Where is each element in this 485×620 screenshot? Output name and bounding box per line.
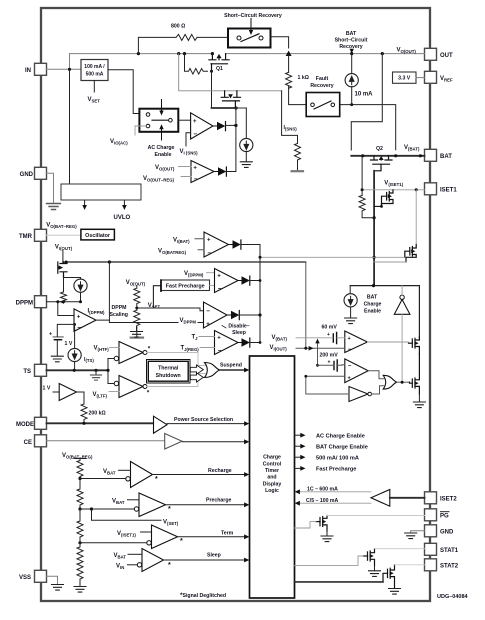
svg-text:VREF: VREF (440, 76, 453, 83)
resistor chain Rb (77, 479, 83, 510)
svg-text:BAT Charge Enable: BAT Charge Enable (316, 444, 368, 450)
ground M2 (374, 566, 376, 570)
wire A2 inputs (179, 167, 192, 177)
svg-text:+: + (327, 332, 330, 338)
svg-text:+: + (328, 360, 331, 366)
svg-text:−: − (348, 364, 352, 370)
pin ISET2 (425, 492, 437, 504)
svg-text:Disable–: Disable– (228, 324, 249, 330)
svg-text:VO(OUT): VO(OUT) (155, 165, 175, 172)
inverter gate drive (points up) (400, 295, 404, 299)
current source BAT charge enable (349, 286, 351, 294)
ground M3 (389, 589, 401, 595)
transistor M1 PG open drain (316, 516, 327, 532)
ground GND pin (47, 204, 61, 210)
node dot D2 join (234, 124, 237, 127)
transistor M5 (termination sense NMOS) (405, 245, 416, 263)
svg-text:+: + (207, 238, 211, 244)
pin IN (35, 63, 47, 75)
svg-text:VO(OUT): VO(OUT) (126, 280, 146, 287)
diode D5 (227, 314, 231, 316)
wire fault line y=104.6 (340, 105, 396, 150)
node dot rail Q1 source (211, 52, 214, 55)
transistor M3 STAT2 (383, 565, 395, 588)
svg-text:+: + (217, 336, 221, 342)
svg-text:V(ISET1): V(ISET1) (384, 181, 403, 188)
svg-text:Display: Display (263, 481, 282, 487)
svg-text:VO(OUT): VO(OUT) (397, 48, 417, 55)
wire VBAT sense to C13 (296, 337, 345, 339)
svg-text:Scaling: Scaling (110, 312, 128, 318)
svg-text:ISET2: ISET2 (440, 497, 457, 503)
svg-text:BAT: BAT (346, 31, 357, 37)
node dot rail Q2 drive (381, 52, 384, 55)
buffer T1 ISET2 (points left) (371, 490, 390, 507)
svg-text:*: * (180, 538, 183, 545)
arrow UVLO out 1 (84, 200, 86, 206)
svg-text:Oscillator: Oscillator (85, 233, 111, 239)
wire riser x=69.5 from IN wire up to main rail (69, 54, 71, 70)
buffer B4 CE (165, 434, 182, 450)
wire VI(OUT) rail y=262 (63, 261, 306, 263)
wire BAT rail y=155.8 (351, 155, 424, 157)
svg-text:60 mV: 60 mV (322, 325, 338, 331)
wire A1- from VI(SNS) (186, 133, 191, 146)
wire M1 gate from logic (295, 522, 317, 528)
transistor M2 STAT1 (363, 549, 375, 566)
svg-text:VIO(AC): VIO(AC) (110, 139, 128, 146)
svg-text:Short–Circuit Recovery: Short–Circuit Recovery (224, 13, 282, 19)
svg-text:I(TS): I(TS) (84, 357, 94, 363)
wire main rail y=53.6 from riser to OUT pin (70, 53, 425, 55)
svg-text:500 mA/ 100 mA: 500 mA/ 100 mA (316, 455, 359, 461)
wire M2 drain to STAT1 (375, 548, 425, 550)
IC outer border (41, 8, 430, 601)
diode D4 (238, 280, 242, 282)
wire fast precharge box to A4- (210, 285, 215, 287)
ground BAT charge enable (345, 318, 357, 324)
svg-text:−: − (77, 325, 81, 332)
svg-text:+: + (348, 376, 351, 382)
svg-text:+: + (193, 119, 197, 125)
wire C13 output to M6 gate (367, 341, 408, 343)
resistor Q1 gate pull-up (185, 54, 208, 75)
wire switch to A1+ (178, 119, 190, 121)
pin TMR (35, 229, 47, 241)
op-amp A4 fast precharge comparator (215, 269, 239, 293)
diode D2 (214, 171, 218, 173)
svg-text:V(LTF): V(LTF) (93, 392, 108, 399)
svg-text:+: + (193, 166, 197, 172)
switch box short-circuit recovery (228, 29, 271, 48)
node dot rail a (177, 52, 180, 55)
block arrow thermal shutdown to OR (190, 365, 203, 374)
wire divider to A10 bubble (80, 508, 134, 510)
node dot at IN riser (68, 68, 71, 71)
resistor 1 kOhm (286, 72, 292, 88)
wire D2 to error node (226, 108, 236, 172)
diode D3 (229, 244, 233, 246)
transistor M7 (410, 354, 420, 394)
ground GND right (405, 533, 417, 539)
svg-text:Term: Term (221, 531, 234, 537)
pin OUT (425, 48, 437, 60)
svg-text:AC Charge Enable: AC Charge Enable (316, 433, 365, 439)
pin STAT1 (425, 543, 437, 555)
wire M1 drain to PG pin (327, 515, 425, 517)
wire GND pin to ground (47, 173, 54, 203)
wire 500mA/100mA out (295, 456, 302, 458)
wire VIOUT to C14 plus (306, 375, 345, 377)
wire A7 inputs (199, 337, 215, 348)
battery 1V reference (53, 336, 63, 338)
transistor M4 (ISET1 mirror NMOS) (382, 190, 394, 207)
svg-text:IN: IN (25, 68, 31, 74)
OR gate M7 drive (383, 375, 397, 389)
ground 1V ref (56, 340, 58, 356)
svg-text:800 Ω: 800 Ω (171, 24, 185, 30)
svg-text:VO(BATREG): VO(BATREG) (158, 249, 187, 256)
svg-text:and: and (267, 475, 276, 481)
transistor P2 (gate drive mirror) (221, 91, 240, 108)
wire TS rail (47, 369, 109, 371)
wire VSET stub below box (93, 81, 95, 93)
wire sleep to logic box (164, 559, 246, 561)
node dot iset1 left (361, 188, 364, 191)
offset source 60mV (333, 333, 336, 344)
node dot BAT/fault (394, 154, 397, 157)
label Disable-Sleep (222, 326, 226, 329)
node dot bus/r (373, 216, 376, 219)
svg-text:PG: PG (440, 514, 449, 520)
bubble C8 output (143, 385, 147, 389)
comparator C8 low temp (119, 376, 143, 398)
pin GND (left) (35, 167, 47, 179)
pin CE (35, 435, 47, 447)
diode D1 (213, 125, 217, 127)
wire divider to A9 bubble (80, 478, 126, 480)
resistor chain Rd (77, 543, 83, 563)
svg-text:Enable: Enable (364, 309, 381, 315)
svg-text:VO(BAT–REG): VO(BAT–REG) (46, 223, 77, 230)
resistor 200k MODE (81, 404, 87, 423)
svg-text:500 mA: 500 mA (86, 72, 104, 78)
wire VIO(AC) to lower switch input (135, 126, 146, 135)
wire 200mV to C14 minus (318, 364, 345, 367)
wire VBAT down-link with up arrow (317, 342, 319, 366)
pin ISET1 (425, 183, 437, 195)
wire Q2 drive drop x=382.3 (351, 54, 382, 150)
transistor P3 (DPPM PMOS) (58, 262, 67, 278)
svg-text:BAT: BAT (440, 154, 452, 160)
svg-text:Thermal: Thermal (158, 366, 179, 372)
svg-text:Q2: Q2 (376, 146, 383, 152)
current source error pulldown (240, 138, 253, 151)
node dot rail/800ohm (137, 52, 140, 55)
svg-text:VI (SNS): VI (SNS) (180, 149, 199, 156)
pin VREF (425, 71, 437, 83)
wire CE to logic box (183, 441, 246, 443)
svg-text:Short–Circuit: Short–Circuit (335, 38, 368, 44)
wire rail tap to P2 row (179, 54, 225, 91)
ground bar divider (131, 337, 143, 339)
svg-text:DPPM: DPPM (16, 301, 33, 307)
wire D3 to OR node (241, 244, 260, 246)
pin PG (425, 509, 437, 521)
svg-text:Fault: Fault (316, 76, 329, 82)
wire fast precharge reference to VSET tap (153, 286, 161, 308)
wire M5 source to bus (374, 261, 406, 263)
svg-text:200 mV: 200 mV (320, 353, 339, 359)
wire 3.3V to VREF pin (416, 77, 425, 79)
svg-text:VI(OUT): VI(OUT) (270, 345, 288, 352)
offset source 200mV (334, 360, 337, 371)
op-amp A3 battery regulation (204, 232, 229, 257)
wire ISET2 drop to M5 (415, 190, 417, 245)
wire Q1 gate down to drive bus (211, 71, 213, 108)
svg-text:STAT1: STAT1 (440, 548, 459, 554)
svg-text:−: − (194, 176, 198, 183)
svg-text:UDG–04084: UDG–04084 (437, 594, 469, 600)
switch box AC charge enable selector (139, 109, 178, 132)
svg-text:−: − (207, 250, 211, 257)
wire Q2 gate bus x=374.1 down to BAT charge enable (373, 171, 375, 286)
comparator C14 (345, 359, 368, 383)
wire drive bus y=108 (212, 107, 238, 109)
OR gate suspend (205, 363, 220, 378)
resistor 800 ohm (176, 34, 197, 40)
wire VIOUT sense to C13 (296, 347, 345, 349)
wire T1 to ISET2 pin (390, 497, 425, 499)
wire AC charge enable out (295, 434, 302, 436)
svg-text:ISET1: ISET1 (440, 188, 457, 194)
wire PSS to logic box (167, 423, 245, 425)
pin BAT (425, 149, 437, 161)
pin VSS (35, 570, 47, 582)
svg-text:−: − (218, 348, 222, 355)
node dot bus/gate2 (373, 256, 376, 259)
box Thermal Shutdown (147, 360, 191, 384)
ground bar I(SNS) (292, 170, 303, 172)
box 100mA/500mA input current limit (81, 60, 108, 81)
svg-text:GND: GND (20, 172, 34, 178)
svg-text:TJ: TJ (192, 335, 199, 342)
svg-text:VBAT: VBAT (112, 499, 125, 506)
svg-text:*Signal Deglitched: *Signal Deglitched (180, 592, 226, 599)
svg-text:Charge: Charge (263, 455, 281, 461)
svg-text:+: + (206, 322, 210, 328)
wire 1V to A5 input (57, 324, 74, 336)
wire BAT charge enable out (295, 445, 302, 447)
svg-text:Charge: Charge (364, 302, 382, 308)
wire VDPPM from scaling node (96, 320, 204, 322)
resistor DPPM pin (61, 292, 67, 303)
wire BAT sense divider x=362.1 (361, 156, 363, 196)
diode D6 (238, 342, 242, 344)
node dot fault/10mA (350, 103, 353, 106)
wire UVLO sense riser x=69.5 down to UVLO block (69, 69, 71, 184)
current source 10 mA (345, 74, 358, 87)
resistor I(SNS) (295, 143, 301, 170)
svg-text:Shutdown: Shutdown (156, 373, 181, 379)
svg-text:I(DPPM): I(DPPM) (88, 309, 106, 316)
wire A4+ (207, 272, 215, 274)
svg-text:Q1: Q1 (216, 66, 223, 72)
wire 1C into box (299, 491, 371, 493)
svg-text:UVLO: UVLO (114, 215, 131, 221)
wire resistor to switch (197, 36, 228, 38)
svg-text:VBAT: VBAT (103, 469, 116, 476)
wire BAT charge enable frame (350, 286, 419, 337)
svg-text:100 mA /: 100 mA / (84, 64, 105, 70)
svg-text:1 V: 1 V (65, 341, 73, 347)
arrow into switch (250, 19, 252, 32)
svg-text:Enable: Enable (154, 152, 171, 158)
wire M3 drain to STAT2 (395, 564, 425, 566)
wire M2 gate (295, 556, 364, 565)
svg-text:Timer: Timer (265, 468, 279, 474)
svg-text:VO(OUT–REG): VO(OUT–REG) (143, 176, 175, 183)
wire C5 into box (299, 502, 371, 504)
svg-text:MODE: MODE (16, 422, 34, 428)
svg-text:V(DPPM): V(DPPM) (184, 271, 204, 278)
svg-text:TS: TS (23, 369, 31, 375)
svg-text:3.3 V: 3.3 V (398, 76, 411, 82)
wire switch return to rail (271, 37, 289, 48)
wire GND pin ground (411, 531, 425, 533)
svg-text:V(BAT): V(BAT) (272, 335, 288, 342)
comparator C7 hot temp (119, 342, 143, 364)
wire term to logic box (178, 536, 246, 538)
svg-text:−: − (193, 131, 197, 138)
svg-text:−: − (348, 347, 352, 353)
svg-text:+: + (348, 336, 351, 342)
svg-text:STAT2: STAT2 (440, 564, 459, 570)
ground divider (74, 587, 86, 593)
svg-text:BAT: BAT (367, 295, 378, 301)
svg-text:+: + (217, 274, 221, 280)
op-amp A2 output voltage loop (191, 161, 214, 183)
wire error node y=126 (226, 124, 236, 126)
resistor chain Rc (77, 509, 83, 543)
pin GND (right) (425, 525, 437, 537)
svg-text:VIN: VIN (116, 564, 124, 571)
svg-text:200 kΩ: 200 kΩ (89, 411, 106, 417)
wire VSS to ground (47, 576, 58, 584)
svg-text:Fast Precharge: Fast Precharge (316, 467, 356, 473)
wire I(SNS) branch (282, 91, 298, 144)
svg-text:V(BAT): V(BAT) (404, 145, 420, 152)
wire B2 out to resistor (77, 392, 85, 404)
wire 800ohm branch riser (138, 37, 176, 53)
buffer B3 power source selection (154, 416, 168, 433)
comparator A10 precharge (139, 493, 166, 517)
comparator C13 (345, 331, 368, 353)
svg-text:Precharge: Precharge (206, 498, 231, 504)
wire VSET tap to A6- (137, 308, 204, 311)
node dot rail 10mA (350, 52, 353, 55)
wire OR node vertical x=260 (259, 245, 261, 343)
wire P3 drain to CS and resistor (64, 278, 81, 302)
wire VDPPM sense drop x=109.4 (108, 262, 110, 320)
arrow AC enable top (161, 100, 163, 112)
svg-text:VSET: VSET (148, 303, 161, 310)
bubble C7 output (143, 351, 147, 355)
svg-text:VI(BAT): VI(BAT) (173, 238, 190, 245)
node dot rail/divider (108, 260, 111, 263)
svg-text:Recharge: Recharge (208, 468, 232, 474)
svg-text:Sleep: Sleep (232, 330, 246, 336)
svg-text:VDPPM: VDPPM (180, 318, 197, 325)
box 3.3V reference (393, 72, 417, 83)
wire ISET1 rail (362, 189, 424, 191)
op-amp A6 DPPM loop comparator (204, 302, 228, 328)
svg-text:*: * (168, 562, 171, 569)
ground VSS (52, 585, 64, 591)
wire TS to comparator bubbles (108, 359, 114, 384)
svg-text:VI(OUT): VI(OUT) (55, 245, 73, 252)
ground above HTF comparator (136, 327, 138, 332)
op-amp A5 DPPM amp (74, 309, 96, 331)
comparator strip UVLO block (61, 184, 141, 200)
svg-text:I(SNS): I(SNS) (284, 125, 298, 132)
wire 1kohm bottom to fault switch (289, 86, 307, 105)
node dot BAT/pin (419, 154, 422, 157)
svg-text:*: * (168, 506, 171, 513)
wire divider to A11 bubble (80, 542, 147, 544)
svg-text:V(HTF): V(HTF) (94, 346, 110, 353)
current source I(TS) (74, 324, 76, 348)
op-amp A1 input current loop (191, 113, 213, 139)
svg-text:TJ(REG): TJ(REG) (181, 346, 200, 353)
svg-text:V(ISET1): V(ISET1) (117, 531, 136, 538)
comparator A12 sleep (142, 549, 164, 572)
wire suspend to logic box (220, 369, 246, 371)
resistor chain Ra (77, 459, 83, 479)
wire IN to riser (47, 68, 82, 70)
ground M7 (418, 394, 420, 402)
svg-text:1 kΩ: 1 kΩ (298, 75, 309, 81)
pin TS (35, 364, 47, 376)
ground M1 (326, 531, 328, 536)
wire C7 C8 outputs to OR (147, 353, 206, 387)
wire VI(OUT) drop (62, 250, 64, 262)
box Fast Precharge (161, 280, 210, 291)
node dot rail b (183, 52, 186, 55)
svg-text:VSET: VSET (88, 97, 101, 104)
resistor ISET1 sense (359, 195, 374, 217)
box Charge Control Timer and Display Logic (250, 356, 295, 598)
current source I DPPM (74, 279, 87, 292)
svg-text:Power Source Selection: Power Source Selection (174, 417, 233, 423)
svg-text:+: + (77, 315, 81, 321)
node dot BAT/sense (361, 154, 364, 157)
svg-text:−: − (218, 286, 222, 293)
transistor Q2 (battery PMOS) (371, 156, 393, 171)
wire TMR to oscillator (47, 234, 81, 236)
arrow AC enable bottom (161, 129, 163, 141)
switch box fault recovery (306, 93, 340, 117)
svg-text:Fast Precharge: Fast Precharge (166, 284, 205, 290)
svg-text:GND: GND (440, 530, 454, 536)
svg-text:10 mA: 10 mA (355, 92, 374, 98)
pin MODE (35, 417, 47, 429)
svg-text:Suspend: Suspend (220, 363, 242, 369)
svg-text:DPPM: DPPM (112, 305, 127, 311)
wire A3 inputs (195, 239, 204, 250)
buffer B2 (59, 384, 76, 401)
wire MODE rail (47, 422, 154, 424)
